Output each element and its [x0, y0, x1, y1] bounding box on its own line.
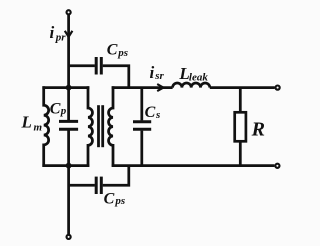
- svg-text:p: p: [60, 105, 67, 117]
- svg-text:sr: sr: [154, 70, 164, 82]
- terminal top-right: [276, 86, 280, 90]
- wire: bottom C_ps left horizontal: [69, 184, 95, 187]
- svg-text:pr: pr: [55, 31, 67, 43]
- svg-text:C: C: [145, 104, 156, 121]
- transformer primary winding: [88, 86, 92, 167]
- node junction dot (main wire / top rail): [66, 85, 72, 91]
- wire: top rail primary side: [42, 86, 89, 89]
- terminal bottom-left: [67, 235, 71, 239]
- svg-text:m: m: [34, 122, 43, 134]
- wire: top C_ps left horizontal: [69, 64, 95, 67]
- capacitor C_ps (bottom) plates: [95, 177, 98, 194]
- wire: bottom C_ps right horizontal + riser up to secondary rail: [103, 166, 129, 186]
- svg-text:s: s: [155, 109, 160, 121]
- transformer core lines: [97, 105, 100, 147]
- capacitor C_s riser top: [140, 88, 143, 121]
- svg-text:i: i: [50, 23, 55, 42]
- arrow i_pr (current arrow on wire, pointing down): [65, 31, 73, 37]
- terminal bottom-right: [275, 164, 279, 168]
- arrow i_sr (on rail, pointing right): [157, 84, 163, 91]
- capacitor C_s riser bottom: [140, 131, 143, 167]
- inductor L_leak (4 arcs on rail): [173, 83, 210, 88]
- svg-text:C: C: [104, 190, 115, 207]
- wire: top rail right segment to terminal: [210, 86, 275, 89]
- svg-text:leak: leak: [189, 72, 208, 84]
- wire: bottom rail secondary side: [112, 164, 275, 167]
- svg-text:ps: ps: [114, 195, 125, 207]
- capacitor C_s plates: [133, 120, 151, 123]
- wire: bottom rail primary side: [42, 164, 89, 167]
- resistor R leads: [239, 88, 242, 113]
- wire: main left vertical (top terminal to C_p top plate): [67, 15, 70, 120]
- svg-text:R: R: [251, 118, 265, 140]
- resistor R body: [235, 112, 246, 141]
- terminal top-left: [67, 10, 71, 14]
- capacitor C_ps (top) plates: [95, 57, 98, 75]
- svg-text:C: C: [50, 101, 61, 118]
- svg-text:i: i: [150, 63, 155, 82]
- inductor L_m (left branch with 4 arcs): [44, 86, 49, 167]
- capacitor C_p plates (on main vertical): [59, 120, 78, 123]
- wire: top rail secondary side (secondary top to L_leak): [112, 86, 173, 89]
- node junction dot (main wire / bottom rail): [66, 163, 72, 169]
- transformer secondary winding: [109, 86, 113, 167]
- svg-text:L: L: [21, 113, 32, 132]
- svg-text:C: C: [107, 42, 118, 59]
- svg-text:ps: ps: [117, 47, 128, 59]
- wire: top C_ps right horizontal + riser down to secondary rail: [103, 66, 129, 88]
- wire: main left vertical (C_p bottom plate to bottom terminal): [67, 130, 70, 234]
